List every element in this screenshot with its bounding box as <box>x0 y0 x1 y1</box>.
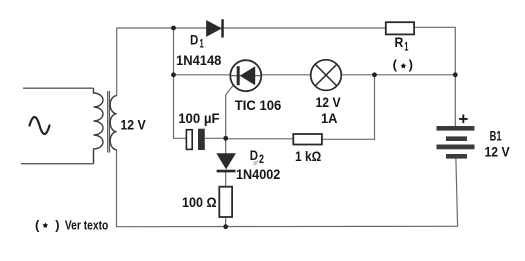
svg-text:): ) <box>409 57 413 72</box>
transformer secondary winding <box>110 96 117 150</box>
diode D1 <box>206 20 221 36</box>
svg-text:(: ( <box>393 57 398 72</box>
node A <box>171 26 176 31</box>
wire top rail right of R1 <box>414 27 455 126</box>
capacitor C1 100uF <box>186 130 192 150</box>
svg-text:1: 1 <box>404 41 409 53</box>
svg-text:TIC 106: TIC 106 <box>235 97 282 113</box>
wire top rail <box>117 27 386 29</box>
svg-text:1N4002: 1N4002 <box>236 166 280 182</box>
resistor 1k <box>293 134 322 145</box>
svg-text:100 Ω: 100 Ω <box>182 194 217 210</box>
svg-text:12 V: 12 V <box>485 143 511 159</box>
svg-text:1: 1 <box>200 38 205 50</box>
resistor R1 <box>386 22 414 34</box>
node C <box>372 72 377 77</box>
svg-text:R: R <box>395 34 404 50</box>
svg-text:1A: 1A <box>321 110 337 126</box>
wire gate lead <box>226 85 234 138</box>
node D <box>453 72 458 77</box>
svg-text:2: 2 <box>259 154 264 166</box>
svg-text:100 µF: 100 µF <box>178 110 220 126</box>
transformer core <box>108 91 110 153</box>
svg-text:1N4148: 1N4148 <box>176 52 222 68</box>
node F <box>223 224 228 229</box>
svg-text:): ) <box>55 218 59 233</box>
node B <box>171 72 176 77</box>
diode D2 <box>216 153 236 169</box>
AC sine symbol <box>30 117 50 134</box>
SCR U1 TIC106 <box>230 60 261 91</box>
node E <box>223 136 228 141</box>
svg-text:(: ( <box>35 218 40 233</box>
resistor 100 ohm <box>219 187 232 217</box>
transformer primary winding <box>94 88 104 164</box>
wire bottom rail <box>117 150 458 227</box>
svg-text:+: + <box>458 110 468 129</box>
svg-text:12 V: 12 V <box>316 94 342 110</box>
battery B1 <box>437 126 475 131</box>
wire cap to 1k <box>205 137 293 140</box>
svg-text:B1: B1 <box>490 127 502 143</box>
wire node column <box>174 28 187 138</box>
svg-text:D: D <box>250 147 258 163</box>
wire secondary top lead <box>116 28 118 96</box>
svg-text:1 kΩ: 1 kΩ <box>295 148 321 164</box>
AC source terminals <box>21 88 94 164</box>
wire anode row <box>174 74 311 76</box>
lamp L1 <box>311 60 342 91</box>
wire 1k to lamp node <box>322 75 375 140</box>
smudge artifact <box>253 161 258 165</box>
svg-text:12 V: 12 V <box>120 117 146 133</box>
svg-text:D: D <box>190 31 198 47</box>
wire lamp to battery <box>341 74 455 76</box>
wire D2 branch <box>225 138 227 226</box>
svg-text:Ver texto: Ver texto <box>65 218 109 232</box>
